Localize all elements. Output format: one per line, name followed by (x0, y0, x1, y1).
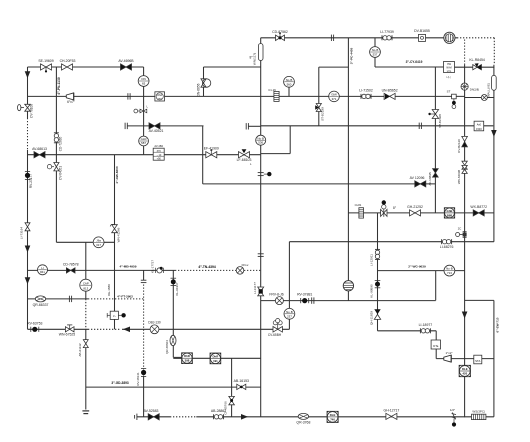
wire col143 mid stub (143, 270, 145, 280)
svg-text:ST: ST (447, 90, 451, 94)
svg-text:CH-20F53: CH-20F53 (60, 59, 76, 63)
drain col86 (82, 411, 89, 414)
svg-text:371: 371 (332, 97, 337, 101)
instrument ST box (452, 94, 457, 108)
valve AB-16153 dot (240, 386, 243, 389)
svg-text:EF-41909: EF-41909 (204, 146, 219, 150)
valve DBJ-130 (150, 325, 159, 334)
valve LI-73164 (25, 223, 30, 231)
valve ST-B2468 (432, 110, 438, 119)
valve QR-66337 (35, 296, 45, 302)
wire col465 main (464, 65, 466, 418)
svg-text:DE-1880: DE-1880 (107, 284, 111, 296)
valve LF-68103 stem (242, 149, 247, 153)
valve DV-B1655 (419, 34, 426, 41)
svg-text:LI-77939: LI-77939 (380, 30, 394, 34)
valve AV-13895 (433, 169, 439, 177)
check valve QH-11829 (374, 309, 380, 319)
wire left header y67 (28, 66, 144, 68)
svg-text:QR-3768: QR-3768 (296, 420, 310, 424)
sight glass WALL (492, 75, 497, 90)
flow arrow col465 (462, 312, 468, 319)
wire col232 (231, 358, 233, 417)
valve CV-65BH (273, 319, 282, 333)
svg-text:KL-17727: KL-17727 (150, 260, 154, 273)
instrument DTa box (431, 340, 440, 349)
wire y299 solid (28, 298, 89, 300)
instrument CAP-813 (80, 279, 92, 291)
valve CD-72665 (54, 133, 59, 143)
svg-text:DBJ-130: DBJ-130 (148, 320, 161, 324)
svg-text:Av0: Av0 (477, 124, 482, 127)
pipe break y126 left (125, 123, 127, 129)
silencer WS-3PC (472, 414, 486, 419)
pipe cap col143 (141, 280, 147, 282)
blower M-449 (444, 32, 455, 43)
valve FRV-8-J6 (275, 297, 283, 305)
pipe break y126 mid (419, 123, 421, 129)
svg-text:420: 420 (462, 371, 467, 375)
wire dashed drop right (493, 38, 495, 65)
wire box step right side (289, 126, 291, 154)
flow arrow col27 mid (25, 246, 31, 253)
valve DN-6856 (201, 79, 206, 87)
wire y300 middle line (261, 300, 436, 302)
instrument AV-1503 box (474, 121, 484, 131)
svg-text:No·B: No·B (286, 78, 293, 82)
svg-text:QR-68604: QR-68604 (165, 340, 169, 354)
svg-text:RV-48141: RV-48141 (136, 372, 140, 386)
svg-text:4″-PN-1130: 4″-PN-1130 (57, 77, 61, 95)
valve AV-12096 (415, 181, 426, 187)
svg-text:AB-61112: AB-61112 (78, 343, 82, 357)
instrument DLE-740 (327, 411, 338, 422)
valve RV-63753 (31, 327, 39, 332)
wire col27 dashed (27, 118, 29, 150)
wire col494 lower (493, 300, 495, 416)
svg-text:740: 740 (330, 417, 335, 421)
svg-text:CV-65BH: CV-65BH (268, 333, 282, 337)
svg-text:4″-DW-8600: 4″-DW-8600 (115, 166, 119, 184)
svg-text:DN(1/8): DN(1/8) (470, 88, 480, 92)
valve ST-B2199 flag (315, 105, 319, 110)
svg-text:CD-78578: CD-78578 (63, 262, 79, 266)
valve KL-R8454 (473, 65, 482, 70)
wire col494 upper (493, 65, 495, 242)
svg-text:2″-WG-9639: 2″-WG-9639 (408, 264, 426, 268)
pipe break col261 y255 (258, 254, 264, 257)
valve AB-28862 (214, 414, 224, 419)
check valve CF-65766 (229, 396, 235, 404)
wire y417 bottom line right (196, 416, 494, 418)
svg-text:WN(117): WN(117) (252, 53, 256, 65)
wire y270 line solid (28, 269, 176, 271)
svg-text:6″-EW-710: 6″-EW-710 (495, 317, 499, 332)
wire col86 lower (85, 329, 87, 409)
wire y331 LI-18977 line (378, 330, 437, 332)
svg-text:398: 398 (185, 359, 190, 363)
svg-text:537: 537 (373, 53, 378, 57)
valve AB-16153 (237, 384, 246, 389)
valve CV-64051 body (54, 163, 59, 171)
wire dashed drop mid (464, 40, 466, 65)
wire y126 left segment (127, 125, 204, 127)
svg-text:LI-18977: LI-18977 (419, 323, 433, 327)
svg-text:CAP: CAP (83, 281, 89, 285)
valve SE-19609 stem (45, 67, 47, 73)
valve KL-R8454 flag (475, 63, 482, 70)
svg-text:ST-B2199: ST-B2199 (320, 107, 324, 121)
wire col27 lower (27, 150, 29, 329)
valve AV-68613 (34, 152, 45, 158)
svg-text:RV-37881: RV-37881 (297, 292, 312, 296)
wire y155 line (28, 154, 261, 156)
wire box step bottom (261, 153, 291, 155)
pipe break y96 (128, 93, 130, 99)
flow arrow y417 (241, 414, 248, 420)
wire vent line y97.5 (465, 97, 494, 99)
wire col114 lower stub (114, 320, 116, 330)
valve 1-2in drain (452, 412, 457, 426)
instrument 370 box dividers (153, 152, 164, 156)
wire top header 261-457 (261, 37, 457, 39)
wire col86 dashed (85, 299, 87, 329)
instrument DN-65 (138, 76, 149, 87)
svg-text:DV-B2120: DV-B2120 (457, 139, 461, 153)
svg-text:STA: STA (475, 359, 480, 363)
instrument STA box (474, 355, 482, 364)
wire col143 dashed (143, 285, 145, 370)
svg-text:DhR: DhR (213, 354, 219, 358)
wire col143 upper (143, 67, 145, 155)
wire y184 line (203, 183, 436, 185)
blower GH box (444, 208, 454, 218)
svg-text:1/2″: 1/2″ (450, 408, 455, 412)
svg-text:1503: 1503 (476, 128, 482, 131)
svg-text:587: 587 (141, 141, 146, 145)
svg-text:L(L): L(L) (446, 76, 450, 79)
svg-text:SE-19609: SE-19609 (38, 59, 53, 63)
wire stub 560 (288, 87, 290, 96)
svg-text:CF-65766: CF-65766 (224, 401, 228, 415)
valve WN-67525 (65, 325, 74, 332)
valve KL-17727 (156, 267, 164, 273)
valve CV-64051 (47, 165, 54, 169)
svg-text:GMI: GMI (331, 93, 337, 97)
instrument LI-841 (38, 265, 48, 275)
svg-text:GhB: GhB (447, 209, 453, 213)
valve X-484 (481, 95, 487, 101)
svg-text:DLE: DLE (330, 413, 336, 417)
wire col436 to DTa (435, 331, 437, 340)
wire col56 (55, 67, 57, 242)
instrument P-348 (343, 281, 353, 291)
wire y329 solid left (28, 328, 89, 330)
instrument DhR-1911 (210, 353, 221, 364)
svg-text:WX-B8772: WX-B8772 (470, 205, 487, 209)
svg-text:4″-TN-4394: 4″-TN-4394 (198, 265, 216, 269)
pipe break y299 (69, 296, 71, 302)
svg-text:DN-6856: DN-6856 (197, 83, 201, 96)
wire col204 upper (203, 67, 205, 96)
svg-text:AV-40521: AV-40521 (149, 129, 164, 133)
svg-text:3″-PC-4405: 3″-PC-4405 (349, 48, 353, 65)
valve GH-21252 (410, 210, 421, 216)
wire col114 (114, 155, 116, 311)
wire col348 stub (347, 291, 349, 301)
flow arrow down col27 (25, 71, 31, 78)
svg-text:713: 713 (447, 271, 452, 275)
wire col143 lower (143, 376, 145, 417)
valve RV-37881 (301, 298, 309, 303)
instrument No-B-537 (370, 47, 381, 58)
wire y358 left instrument line (173, 357, 260, 359)
svg-text:B9B: B9B (447, 213, 453, 217)
svg-text:¼: ¼ (113, 314, 116, 318)
wire y329 dashed mid (88, 328, 121, 330)
valve KL-91967 (171, 278, 177, 285)
valve CD-87562 (276, 32, 285, 40)
svg-text:No·B: No·B (446, 267, 453, 271)
svg-text:AV-68613: AV-68613 (32, 147, 47, 151)
svg-text:LI-73164: LI-73164 (20, 227, 24, 239)
vent fitting col465 (456, 231, 467, 237)
wire col435 upper (434, 67, 436, 213)
flow arrow col494 (491, 130, 497, 137)
instrument GLR-587 (139, 136, 149, 146)
pipe cap with ball col261 (258, 172, 272, 176)
wire col261 main (260, 38, 262, 417)
bellows C1-26 (274, 91, 279, 101)
svg-text:KL-R8454: KL-R8454 (469, 58, 485, 62)
pipe cap y417 left (135, 414, 137, 420)
inline strainer WN-117 (258, 44, 263, 61)
svg-text:AV-13895: AV-13895 (428, 172, 432, 186)
wire y242 left line (56, 241, 114, 243)
svg-text:AV-52583: AV-52583 (144, 409, 159, 413)
pipe break y126 right (246, 123, 248, 129)
svg-text:J6a: J6a (96, 238, 101, 242)
wire header y67 segment 319-348 (319, 66, 349, 68)
valve QR-68604 (170, 335, 176, 345)
wire y358 right instrument line (436, 358, 494, 360)
svg-text:LI-71502: LI-71502 (359, 88, 373, 92)
svg-text:813: 813 (83, 286, 88, 290)
svg-text:KL-99590: KL-99590 (370, 284, 374, 298)
drain fitting col143 (134, 105, 149, 113)
wire col289 lower (288, 319, 290, 329)
wire y270 dashed end (244, 269, 261, 271)
valve UN-B5652 (384, 93, 395, 99)
wire y417 dashed (170, 416, 196, 418)
valve LF-68103 (239, 152, 250, 158)
valve SE-19609 (41, 64, 52, 70)
fitting col114 box (107, 311, 126, 319)
svg-text:6″x7″: 6″x7″ (67, 100, 75, 104)
wire 3in-GD-3893 line (86, 386, 261, 388)
wire y417 bottom line left (137, 416, 170, 418)
valve AV-52583 (148, 414, 159, 420)
wire 2in-WG-9639 line (378, 270, 465, 272)
wire col375 stub upper (374, 38, 376, 47)
wire col319 (318, 67, 320, 126)
wire col289 upper (288, 242, 290, 309)
svg-text:WS(3PC): WS(3PC) (472, 409, 485, 413)
reducer 6x7 (66, 93, 73, 100)
svg-text:LI-13177: LI-13177 (253, 282, 257, 294)
valve DfE-240 (236, 267, 244, 275)
svg-text:No·B: No·B (286, 310, 293, 314)
valve RV-23177 (25, 171, 30, 179)
wire col173 (172, 270, 174, 357)
svg-text:AV 12096: AV 12096 (410, 176, 425, 180)
wire y270 dashed mid (175, 269, 236, 271)
instrument No-B-536 (256, 135, 266, 145)
svg-text:No·B: No·B (372, 48, 379, 52)
svg-text:LI-12911: LI-12911 (370, 254, 374, 266)
valve WX-B8772 (473, 210, 484, 216)
svg-text:UN-B5652: UN-B5652 (382, 88, 398, 92)
wire y126 right segment (261, 125, 494, 127)
svg-text:LI-68276: LI-68276 (440, 245, 454, 249)
svg-text:237: 237 (287, 314, 292, 318)
svg-text:3″-CY-6419: 3″-CY-6419 (406, 60, 423, 64)
svg-text:65: 65 (142, 82, 146, 86)
svg-text:560: 560 (287, 82, 292, 86)
svg-text:841: 841 (40, 270, 45, 274)
wire col86 upper (85, 242, 87, 279)
valve LI-71502 (361, 94, 371, 99)
svg-text:CD-87562: CD-87562 (272, 30, 288, 34)
instrument DhD-3986 (182, 353, 193, 364)
svg-text:4″-FT-2902: 4″-FT-2902 (117, 294, 133, 298)
check valve DV-B2120 (462, 136, 468, 146)
svg-text:ST-B2468: ST-B2468 (438, 114, 442, 128)
svg-text:AV-4696B: AV-4696B (118, 59, 134, 63)
valve LI-18977 (420, 328, 430, 333)
svg-text:WN-84098: WN-84098 (457, 170, 461, 185)
wire col27 upper (27, 67, 29, 118)
valve RV-48141 (141, 369, 146, 377)
svg-text:GH-12717: GH-12717 (383, 408, 399, 412)
wire col348 (347, 38, 349, 281)
valve UN-B5652 fill (385, 94, 390, 100)
svg-text:RV-23177: RV-23177 (29, 174, 33, 188)
wire col86 stub (85, 291, 87, 299)
valve 8in with lollipop (381, 200, 387, 217)
svg-text:QH-11829: QH-11829 (370, 311, 374, 325)
svg-text:CL81: CL81 (355, 203, 362, 207)
valve LI-12911 (375, 249, 380, 259)
valve GH-12717 (386, 413, 397, 419)
valve AV-40521 (149, 123, 160, 129)
instrument J6a-317 (93, 237, 104, 248)
wire KL-R8454 line (455, 66, 495, 68)
valve QR-3768 (298, 413, 308, 419)
flow arrow y329 (123, 327, 130, 333)
instrument No-B-560 (284, 76, 295, 87)
valve WN-41266 (110, 224, 117, 232)
instrument XW box (444, 62, 455, 73)
svg-text:DV-B1655: DV-B1655 (414, 29, 430, 33)
valve CD-78578 (66, 268, 75, 273)
valve EF-41909 (206, 149, 217, 158)
wire y300 right corner (465, 299, 494, 301)
wire main process line y96 (28, 95, 465, 97)
svg-text:WALL(VE): WALL(VE) (486, 83, 490, 97)
instrument DV-287 (155, 92, 165, 101)
instrument No-B-713 (444, 265, 455, 276)
svg-text:CV-64051: CV-64051 (59, 166, 63, 180)
valve DN-6856 circle (202, 79, 210, 87)
svg-text:4″-MB-4959: 4″-MB-4959 (120, 264, 137, 268)
svg-text:DN·w: DN·w (242, 263, 249, 267)
svg-text:CD-72665: CD-72665 (58, 137, 62, 152)
wire y329 solid (122, 328, 289, 330)
flow arrow col27 low (25, 277, 31, 284)
instrument GMI-371 (329, 91, 340, 102)
valve CD-87562 ball (278, 36, 281, 39)
bellows CL81 (359, 208, 364, 218)
pipe break y38 (331, 35, 333, 41)
svg-text:WN-67525: WN-67525 (59, 333, 76, 337)
instrument DV-287 inner circle (156, 93, 163, 100)
wire header y67 segment 203-261 (204, 66, 261, 68)
wire col173 foot (173, 356, 181, 358)
svg-text:WN-41266: WN-41266 (116, 227, 120, 242)
svg-text:C1-26: C1-26 (268, 88, 276, 92)
valve AB-61112 (83, 340, 88, 348)
svg-text:191: 191 (213, 359, 218, 363)
valve AV-4696B (121, 64, 132, 70)
wire col375 stub lower (374, 58, 376, 68)
wire top header dashed (457, 37, 494, 39)
svg-text:317: 317 (96, 243, 101, 247)
svg-text:AV-4B4: AV-4B4 (154, 144, 163, 148)
fan DN-465 (461, 83, 468, 90)
instrument 370 box (153, 148, 164, 160)
wire 3in-CY-6419 line (375, 66, 444, 68)
reducer 1x2 (444, 355, 451, 362)
pipe break y300 (312, 297, 314, 303)
wire drop 435 to y300 (435, 271, 437, 301)
svg-text:FRV-8-J6: FRV-8-J6 (269, 292, 284, 296)
svg-text:DTa: DTa (433, 344, 438, 348)
instrument DLE-420 (459, 365, 470, 376)
svg-text:287: 287 (158, 97, 163, 101)
valve ST-B2468 stem (428, 113, 435, 115)
wire y213 GH line (348, 212, 494, 214)
svg-text:DhD: DhD (184, 354, 190, 358)
svg-text:536: 536 (258, 140, 263, 144)
wire col377 (377, 213, 379, 331)
svg-text:QR-66337: QR-66337 (33, 303, 49, 307)
svg-text:DN: DN (142, 77, 146, 81)
valve LI-13177 (258, 287, 264, 296)
svg-text:370: 370 (157, 150, 162, 153)
svg-text:RV-63753: RV-63753 (27, 322, 42, 326)
valve LI-68276 (442, 239, 452, 244)
svg-text:LXL: LXL (447, 70, 452, 73)
svg-text:2C: 2C (458, 227, 462, 231)
instrument No-B-237 (284, 308, 295, 319)
wire col436 below DTa (435, 349, 437, 359)
wire y242 right line (289, 241, 494, 243)
valve CH-20F53 (62, 64, 73, 70)
wire y299 dashed (88, 298, 144, 300)
svg-text:+90: +90 (157, 157, 162, 160)
svg-text:1″x2″: 1″x2″ (446, 351, 453, 355)
